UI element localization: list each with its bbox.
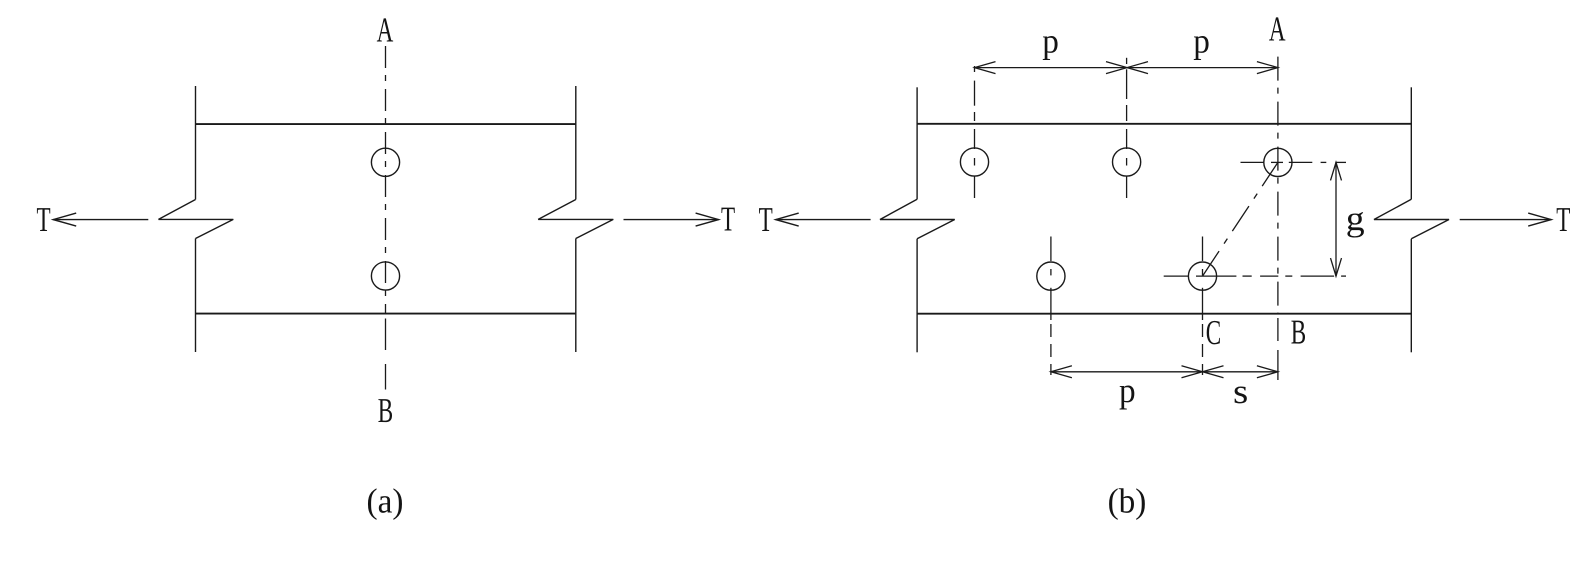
label p top-left (b) bbox=[1042, 21, 1059, 60]
arrow down tip g dim (b) bbox=[1331, 258, 1342, 276]
label g (b) bbox=[1346, 199, 1365, 238]
hole (b) bottom-mid (C) bbox=[1188, 262, 1216, 290]
label T right (a) bbox=[721, 199, 735, 238]
arrow left tip top dim (b) bbox=[975, 62, 996, 74]
svg-text:(a): (a) bbox=[367, 482, 404, 521]
plate (a) right edge bbox=[575, 86, 577, 352]
force arrow T left (a) bbox=[53, 213, 148, 226]
centerline hole bottom-left (b) bbox=[1050, 237, 1052, 376]
svg-text:p: p bbox=[1193, 21, 1210, 60]
label T left (a) bbox=[36, 200, 50, 239]
plate (b) left edge bbox=[916, 87, 918, 352]
break symbol (b) right bbox=[1374, 199, 1449, 239]
plate (a) left edge bbox=[195, 86, 197, 352]
centerline A-B (b) bbox=[1277, 57, 1279, 380]
dimension line p s bottom (b) bbox=[1051, 371, 1278, 373]
svg-text:A: A bbox=[1269, 9, 1286, 48]
svg-text:T: T bbox=[1556, 200, 1570, 239]
svg-text:s: s bbox=[1233, 372, 1248, 411]
hole (b) bottom-left bbox=[1037, 262, 1065, 290]
plate (b) top line bbox=[917, 123, 1411, 125]
centerline hole top-mid (b) bbox=[1126, 58, 1128, 198]
label p top-right (b) bbox=[1193, 21, 1210, 60]
label T left (b) bbox=[759, 200, 773, 239]
force arrow T right (b) bbox=[1460, 213, 1552, 226]
plate (a) bottom line bbox=[196, 313, 576, 315]
plate (a) top line bbox=[196, 123, 576, 125]
arrow up tip g dim (b) bbox=[1331, 162, 1342, 180]
hole (b) top-right (A) bbox=[1264, 148, 1292, 176]
break symbol (a) left bbox=[159, 200, 234, 239]
centerline A-B (a) bbox=[385, 46, 387, 390]
label A (a) bbox=[377, 10, 394, 49]
force arrow T left (b) bbox=[776, 213, 871, 226]
svg-text:B: B bbox=[1291, 313, 1306, 352]
label s bottom (b) bbox=[1233, 372, 1248, 411]
horizontal centerline hole top-right (b) bbox=[1241, 161, 1347, 163]
svg-text:T: T bbox=[721, 199, 735, 238]
horizontal centerline row C (b) bbox=[1164, 275, 1346, 277]
svg-text:A: A bbox=[377, 10, 394, 49]
break symbol (b) left bbox=[880, 199, 955, 239]
hole (a) bottom bbox=[371, 262, 399, 290]
centerline hole top-left (b) bbox=[974, 66, 976, 198]
dimension line g (b) bbox=[1335, 162, 1337, 276]
label T right (b) bbox=[1556, 200, 1570, 239]
label p bottom (b) bbox=[1119, 371, 1136, 410]
caption (a) bbox=[367, 482, 404, 521]
label B (b) bbox=[1291, 313, 1306, 352]
double arrow mid top dim (b) bbox=[1106, 62, 1148, 74]
svg-text:B: B bbox=[378, 391, 393, 430]
hole (a) top bbox=[371, 148, 399, 176]
hole (b) top-mid bbox=[1113, 148, 1141, 176]
label A (b) bbox=[1269, 9, 1286, 48]
arrow right tip top dim (b) bbox=[1257, 62, 1278, 74]
svg-text:p: p bbox=[1119, 371, 1136, 410]
svg-text:p: p bbox=[1042, 21, 1059, 60]
dimension line p p top (b) bbox=[975, 67, 1278, 69]
double arrow mid bottom dim (b) bbox=[1182, 366, 1224, 378]
caption (b) bbox=[1108, 482, 1147, 521]
label B (a) bbox=[378, 391, 393, 430]
force arrow T right (a) bbox=[624, 213, 719, 226]
arrow right tip bottom dim (b) bbox=[1257, 366, 1278, 378]
break symbol (a) right bbox=[538, 200, 613, 239]
svg-text:T: T bbox=[36, 200, 50, 239]
arrow left tip bottom dim (b) bbox=[1051, 366, 1072, 378]
hole (b) top-left bbox=[960, 148, 988, 176]
label C (b) bbox=[1206, 313, 1221, 352]
diagonal centerline C to A hole (b) bbox=[1203, 162, 1278, 276]
svg-text:(b): (b) bbox=[1108, 482, 1147, 521]
plate (b) bottom line bbox=[917, 313, 1411, 315]
svg-text:T: T bbox=[759, 200, 773, 239]
svg-text:C: C bbox=[1206, 313, 1221, 352]
plate (b) right edge bbox=[1410, 87, 1412, 352]
centerline hole bottom-mid C (b) bbox=[1202, 237, 1204, 376]
svg-text:g: g bbox=[1346, 199, 1365, 238]
